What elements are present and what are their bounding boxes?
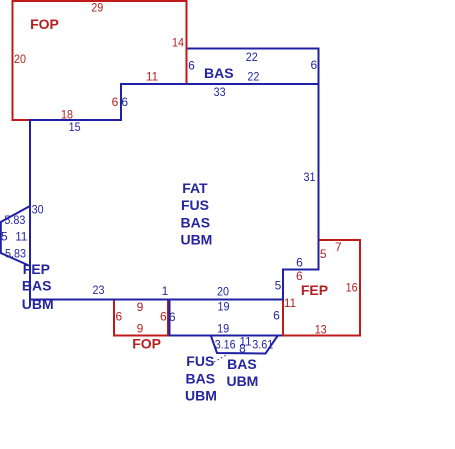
svg-text:9: 9 — [137, 300, 144, 314]
svg-text:6: 6 — [116, 310, 123, 324]
svg-text:3.16: 3.16 — [215, 338, 236, 352]
FUS BAS UBM lower rectangle outline — [170, 300, 284, 336]
svg-text:5: 5 — [275, 278, 282, 292]
svg-text:19: 19 — [218, 299, 230, 313]
svg-text:14: 14 — [172, 35, 184, 49]
svg-text:1: 1 — [162, 284, 169, 298]
svg-text:7: 7 — [335, 240, 342, 254]
svg-text:5.83: 5.83 — [4, 213, 25, 227]
svg-text:8: 8 — [239, 342, 246, 356]
svg-text:5: 5 — [320, 247, 327, 261]
svg-text:11: 11 — [15, 229, 27, 243]
svg-text:BAS: BAS — [204, 65, 234, 81]
BAS upper rectangle outline — [187, 49, 319, 85]
FOP lower box outline — [114, 300, 168, 336]
svg-text:6: 6 — [160, 310, 167, 324]
svg-text:FUS: FUS — [181, 197, 209, 213]
svg-text:6: 6 — [188, 58, 195, 72]
svg-text:6: 6 — [112, 95, 119, 109]
svg-text:FEP: FEP — [23, 261, 50, 277]
FUS BAS UBM stair tab — [211, 336, 278, 354]
svg-text:19: 19 — [217, 322, 229, 336]
svg-text:11: 11 — [146, 69, 158, 83]
svg-text:6: 6 — [169, 310, 176, 324]
svg-text:16: 16 — [346, 280, 358, 294]
svg-text:22: 22 — [246, 50, 258, 64]
svg-text:11: 11 — [284, 296, 296, 310]
svg-text:6: 6 — [296, 256, 303, 270]
svg-text:6: 6 — [310, 58, 317, 72]
FEP right polygon outline — [283, 240, 360, 336]
svg-text:20: 20 — [217, 284, 229, 298]
FEP BAS UBM left pentagon outline — [1, 206, 30, 266]
svg-text:15: 15 — [69, 120, 81, 134]
svg-text:29: 29 — [91, 1, 103, 15]
svg-text:23: 23 — [93, 283, 105, 297]
svg-text:FUS: FUS — [186, 353, 214, 369]
svg-text:UBM: UBM — [180, 231, 212, 247]
svg-text:31: 31 — [304, 170, 316, 184]
svg-text:FOP: FOP — [30, 16, 59, 32]
FOP upper-left polygon outline — [13, 1, 187, 120]
svg-text:6: 6 — [273, 309, 280, 323]
svg-text:20: 20 — [14, 52, 26, 66]
svg-text:5.83: 5.83 — [5, 246, 26, 260]
FAT FUS BAS UBM central polygon outline — [30, 84, 319, 300]
svg-text:FAT: FAT — [182, 180, 208, 196]
svg-text:BAS: BAS — [227, 356, 257, 372]
svg-text:UBM: UBM — [226, 373, 258, 389]
svg-text:BAS: BAS — [181, 214, 211, 230]
svg-text:9: 9 — [137, 321, 144, 335]
svg-text:3.61: 3.61 — [252, 338, 273, 352]
svg-text:6: 6 — [121, 95, 128, 109]
svg-text:BAS: BAS — [186, 370, 216, 386]
svg-text:FOP: FOP — [132, 335, 161, 351]
svg-text:UBM: UBM — [22, 296, 54, 312]
svg-text:13: 13 — [315, 323, 327, 337]
svg-text:30: 30 — [32, 202, 44, 216]
svg-text:22: 22 — [247, 70, 259, 84]
svg-text:UBM: UBM — [185, 387, 217, 403]
svg-text:FEP: FEP — [301, 282, 328, 298]
svg-text:BAS: BAS — [22, 278, 52, 294]
svg-text:33: 33 — [214, 85, 226, 99]
svg-text:5: 5 — [1, 229, 8, 243]
dotted leader to stair tab — [214, 354, 228, 362]
svg-text:6: 6 — [296, 269, 303, 283]
